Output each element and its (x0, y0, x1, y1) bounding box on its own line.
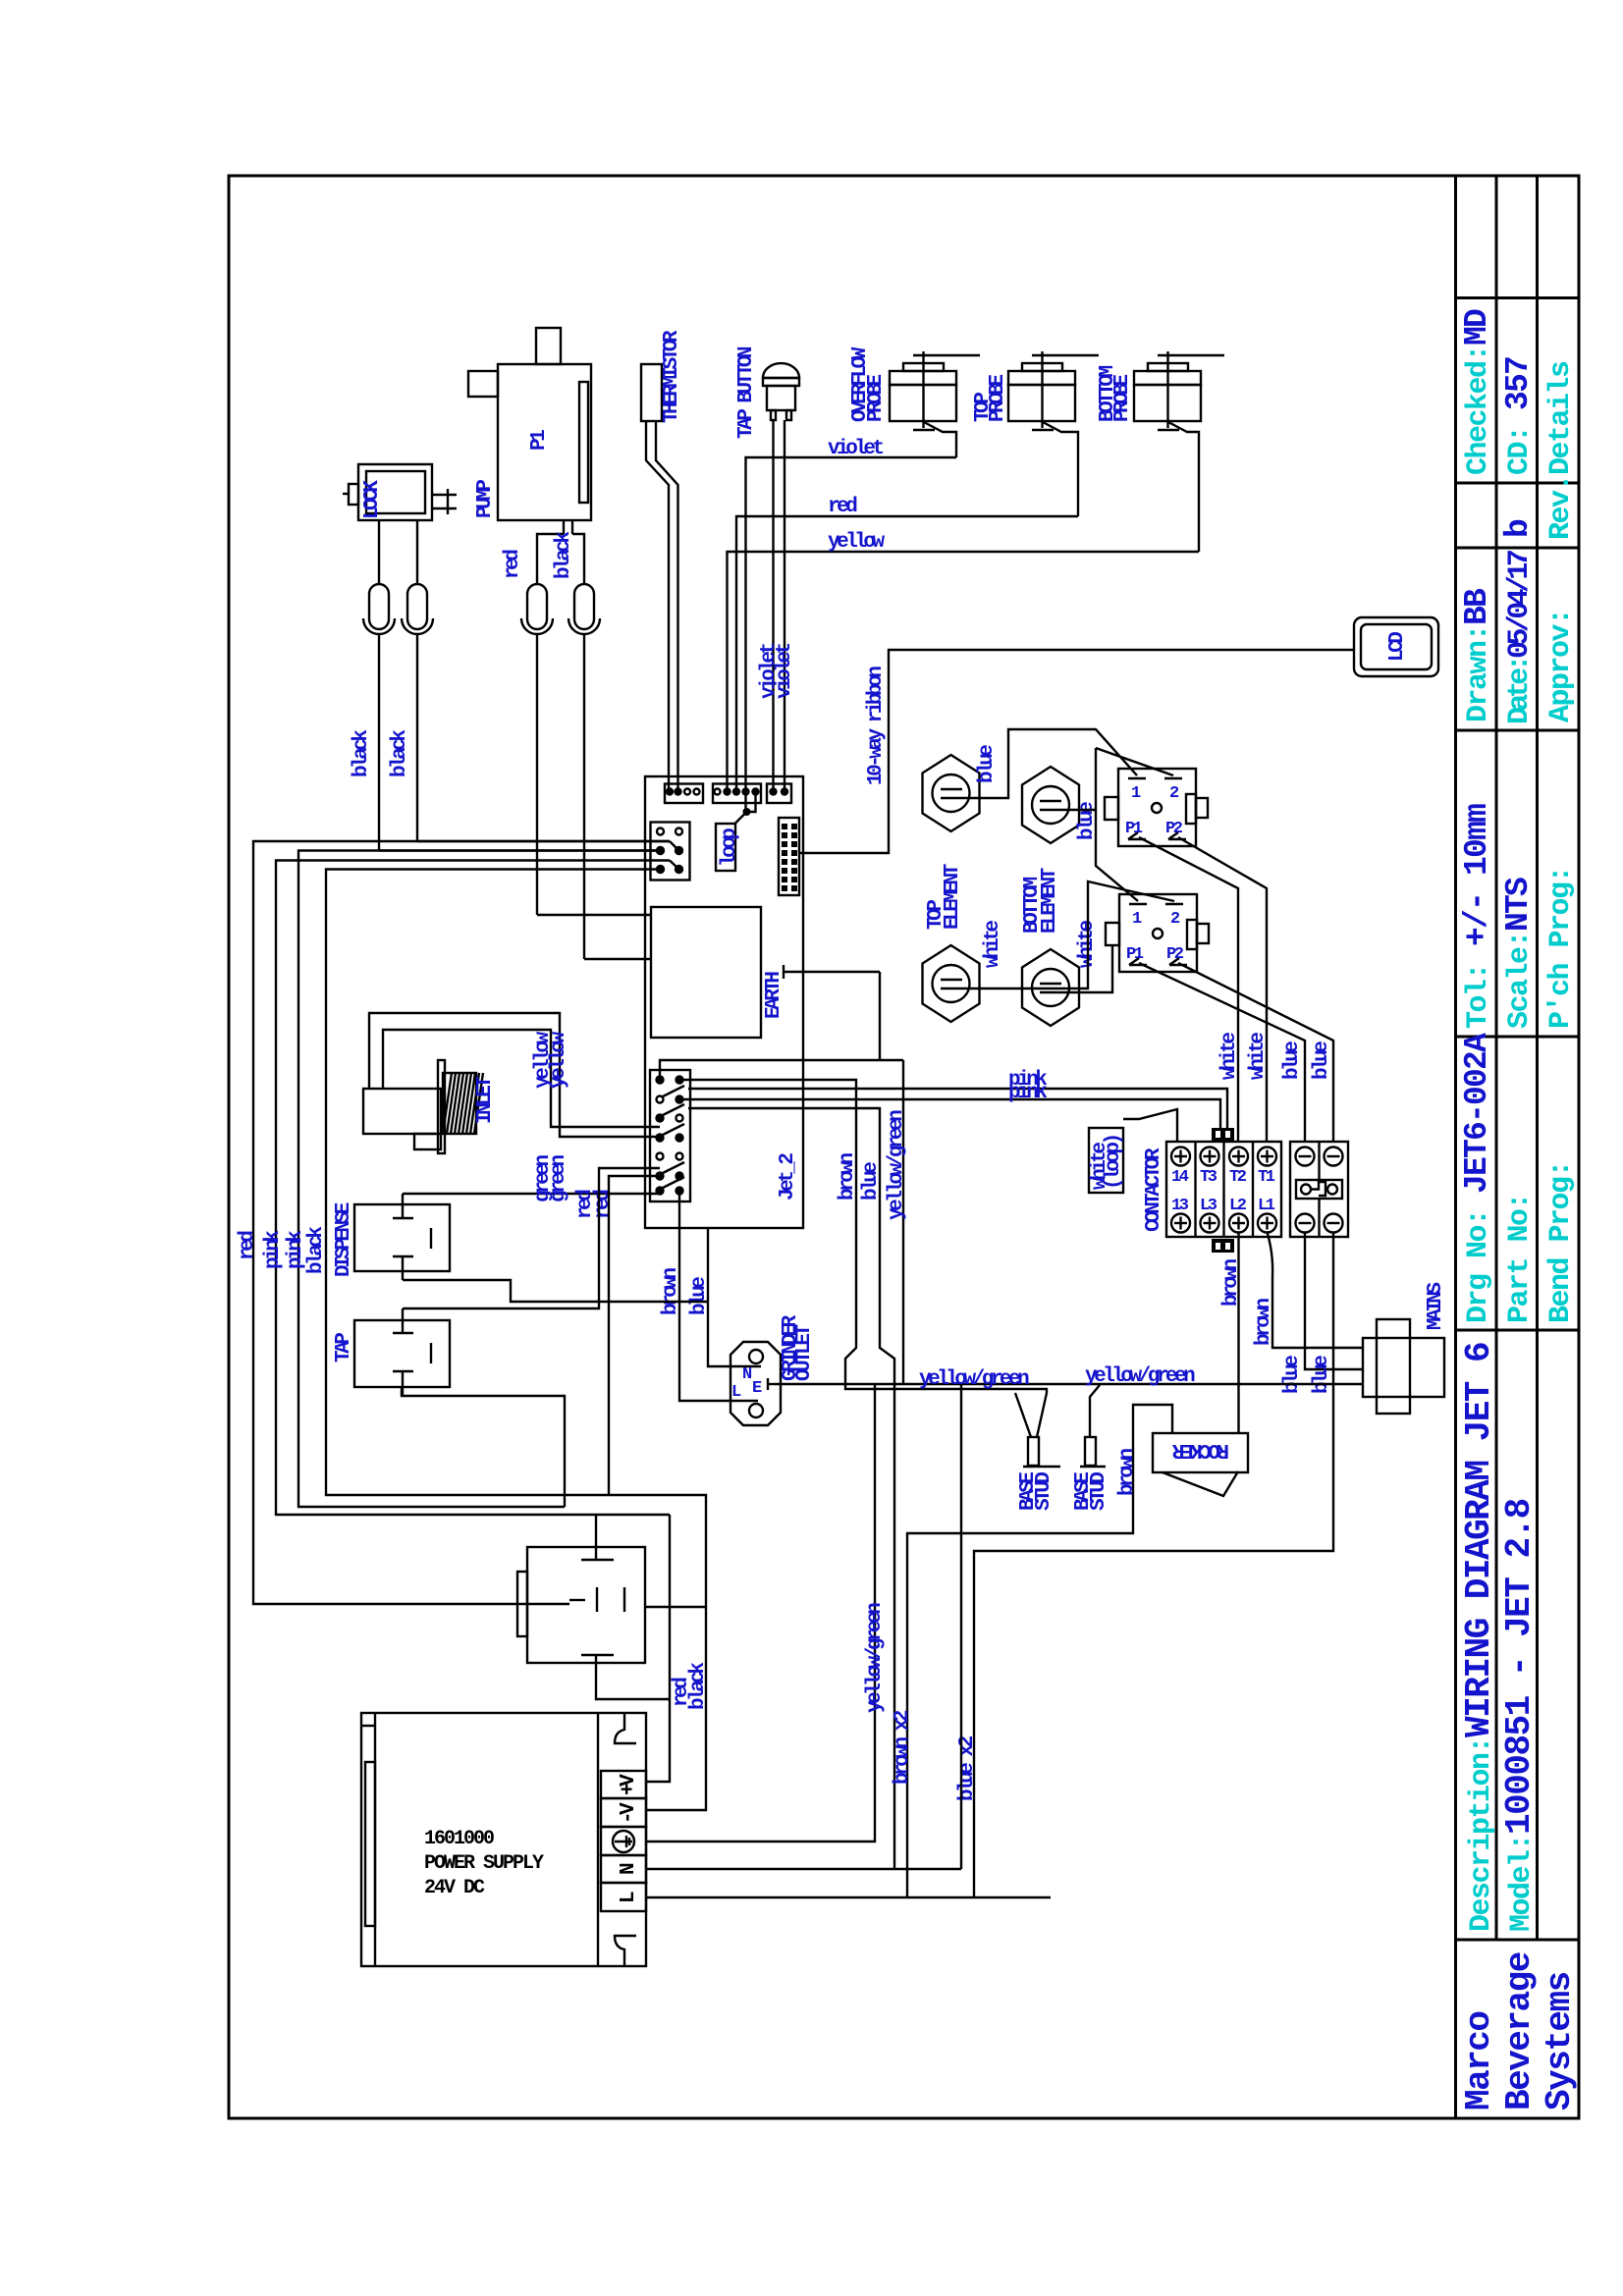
wire brown to grinder L (679, 1194, 730, 1401)
svg-text:P1: P1 (1126, 945, 1144, 964)
svg-text:red: red (828, 496, 857, 518)
LCD (1354, 617, 1438, 676)
wire black to PSU -V (326, 870, 706, 1811)
wire box2 P2 blue to terminal block (1178, 963, 1333, 1142)
svg-text:PROBE: PROBE (1111, 375, 1134, 422)
svg-text:blue: blue (1281, 1041, 1304, 1080)
wire to box1 pin2 (1096, 748, 1173, 775)
svg-text:CD: 357: CD: 357 (1500, 357, 1537, 475)
MAINS plug (1363, 1319, 1444, 1414)
PCB top connector 3 (tap button) (767, 784, 791, 804)
bottom element screw 1 (blue) (1022, 767, 1079, 843)
svg-text:10-way ribbon: 10-way ribbon (865, 667, 888, 785)
svg-text:TAP: TAP (333, 1333, 355, 1362)
solenoid LOCK (343, 464, 457, 520)
PCB lower connector (650, 1070, 690, 1201)
tap button (763, 363, 799, 791)
2-pin black connector above contactor (1212, 1128, 1234, 1142)
svg-text:loop: loop (719, 828, 741, 867)
wire blue2 neutral block down (974, 1232, 1333, 1897)
svg-text:14: 14 (1171, 1168, 1189, 1187)
svg-text:green: green (548, 1155, 570, 1202)
PSU terminal L (601, 1883, 646, 1911)
svg-text:Drg No: JET6-002A: Drg No: JET6-002A (1459, 1033, 1495, 1323)
probe TOP (1008, 351, 1099, 516)
PCB top connector 1 (thermistor) (665, 784, 703, 804)
blade terminal (LOCK right) (402, 520, 433, 841)
top element screw 1 (blue) (923, 755, 980, 831)
svg-text:CONTACTOR: CONTACTOR (1143, 1148, 1165, 1232)
PSU terminal +V (601, 1771, 646, 1798)
probe OVERFLOW (890, 351, 980, 457)
pump P1 (468, 328, 591, 584)
wire hex2 blue riser (1079, 748, 1096, 810)
svg-text:P1: P1 (528, 430, 551, 451)
svg-text:blue: blue (860, 1162, 883, 1201)
svg-text:EARTH: EARTH (763, 972, 785, 1019)
contactor screws bottom (1171, 1214, 1276, 1233)
wire violet (overflow probe) (746, 457, 957, 791)
wire yellow (bottom probe) (728, 552, 1200, 791)
svg-text:yellow/green: yellow/green (864, 1603, 887, 1713)
wire left-r1 up to earth net (660, 1060, 903, 1080)
svg-text:L1: L1 (1258, 1197, 1275, 1215)
svg-text:brown: brown (1116, 1449, 1139, 1496)
svg-text:brown: brown (660, 1268, 682, 1315)
svg-text:blue: blue (688, 1277, 711, 1315)
svg-text:Systems: Systems (1540, 1972, 1580, 2110)
svg-text:TAP BUTTON: TAP BUTTON (735, 347, 758, 439)
svg-text:violet: violet (774, 643, 796, 699)
wire red (far left) (253, 841, 670, 1604)
svg-text:Scale:NTS: Scale:NTS (1500, 878, 1537, 1029)
svg-text:Date:05/04/17: Date:05/04/17 (1503, 551, 1537, 724)
wire brown L1 to mains/rocker (1268, 1232, 1364, 1348)
wire brown riser from r1 (679, 1080, 1015, 1389)
power supply box (361, 1713, 646, 1966)
svg-text:Approv:: Approv: (1544, 609, 1578, 722)
earth stub (784, 965, 880, 979)
drawing frame border (229, 176, 1579, 2118)
wire LOCK-left black to PCB connector (379, 849, 661, 851)
svg-text:white: white (1218, 1033, 1241, 1080)
svg-text:P1: P1 (1125, 820, 1143, 838)
svg-text:Drawn:BB: Drawn:BB (1459, 588, 1495, 722)
svg-text:STUD: STUD (1033, 1472, 1055, 1511)
wire 10-way ribbon to LCD (799, 650, 1354, 853)
svg-text:pink: pink (285, 1231, 307, 1269)
svg-text:Part No:: Part No: (1503, 1194, 1537, 1323)
wire rocker left to relay line (907, 1405, 1172, 1897)
wire box1 P1 white to contactor T2 (1139, 837, 1238, 1142)
wire hex1 blue to box1 pin1 (980, 729, 1138, 798)
ROCKER switch (1153, 1433, 1248, 1472)
svg-text:blue: blue (1311, 1041, 1333, 1080)
svg-text:DISPENSE: DISPENSE (333, 1202, 355, 1277)
wire box2 P1 blue to terminal block (1139, 963, 1305, 1142)
svg-text:Rev.: Rev. (1544, 475, 1578, 540)
svg-text:POWER SUPPLY: POWER SUPPLY (424, 1852, 544, 1875)
svg-text:white: white (1247, 1033, 1270, 1080)
svg-text:b: b (1500, 519, 1537, 538)
wire tap bottom to PSU L (402, 1387, 565, 1507)
wire blue to grinder N (708, 1228, 743, 1366)
svg-text:blue x2: blue x2 (956, 1735, 979, 1801)
DISPENSE switch (354, 1194, 450, 1280)
svg-text:black: black (389, 730, 411, 777)
PCB top connector 2 (713, 784, 761, 804)
svg-text:brown: brown (1220, 1259, 1243, 1307)
svg-text:pink: pink (262, 1231, 285, 1269)
svg-text:red: red (237, 1231, 259, 1260)
svg-text:(loop): (loop) (1103, 1135, 1125, 1190)
PSU terminal N (601, 1855, 646, 1883)
wire inlet yellow 1 (369, 1013, 660, 1137)
upper connector (6-pin with arms) (651, 823, 690, 881)
svg-text:LOCK: LOCK (361, 480, 384, 519)
svg-text:yellow/green: yellow/green (886, 1110, 908, 1220)
title block grid (1456, 176, 1580, 2118)
wire LOCK-right black to PCB connector (417, 840, 670, 842)
TITLEBLOCK (1456, 176, 1581, 2118)
svg-text:black: black (305, 1227, 328, 1274)
EARTH block (651, 907, 761, 1038)
svg-text:MAINS: MAINS (1425, 1283, 1447, 1330)
thermostat box 2 (1106, 894, 1209, 972)
svg-text:ELEMENT: ELEMENT (1039, 868, 1061, 934)
neutral terminal block 2-pole (1290, 1142, 1348, 1237)
svg-text:brown: brown (1253, 1299, 1275, 1346)
svg-text:red: red (592, 1190, 615, 1219)
thermostat box 1 (1105, 769, 1208, 846)
svg-text:24V DC: 24V DC (424, 1877, 485, 1899)
probe BOTTOM (1134, 351, 1224, 552)
wire box1 P2 white to contactor T1 (1178, 837, 1267, 1142)
svg-text:1601000: 1601000 (424, 1828, 494, 1850)
svg-text:T3: T3 (1200, 1168, 1217, 1187)
svg-text:Description:WIRING DIAGRAM JET: Description:WIRING DIAGRAM JET 6 (1459, 1343, 1499, 1932)
svg-text:PROBE: PROBE (865, 375, 888, 422)
wire hex4 white to box2 tab (1079, 945, 1112, 992)
svg-text:Jet_2: Jet_2 (777, 1153, 799, 1201)
svg-text:red: red (502, 550, 524, 579)
svg-text:Model:1000851 - JET 2.8: Model:1000851 - JET 2.8 (1499, 1499, 1540, 1932)
svg-text:Details: Details (1544, 361, 1578, 475)
wire blue neutral block to mains (1305, 1232, 1363, 1369)
wire pump red (537, 914, 651, 916)
svg-text:brown x2: brown x2 (892, 1710, 914, 1785)
svg-text:13: 13 (1171, 1197, 1189, 1215)
base stud 2 (1080, 1385, 1106, 1467)
bottom element screw 2 (white) (1022, 949, 1079, 1026)
wire yellow/green earth from grinder E to mains (775, 1383, 1363, 1385)
wire pink 1 (688, 1089, 1227, 1128)
svg-text:Tol: +/- 10mm: Tol: +/- 10mm (1459, 804, 1495, 1029)
svg-text:brown: brown (837, 1153, 859, 1201)
wire inlet yellow 2 (383, 1030, 660, 1127)
svg-text:P2: P2 (1165, 820, 1183, 838)
wire red pair to r6 (403, 1168, 660, 1308)
svg-text:T1: T1 (1258, 1168, 1275, 1187)
svg-text:Beverage: Beverage (1499, 1952, 1540, 2110)
svg-text:Bend Prog:: Bend Prog: (1544, 1161, 1578, 1323)
wire green 1 (dispense top) (403, 1193, 658, 1195)
wire relay bottom red to PSU +V (596, 1654, 670, 1699)
PSU terminal -V (601, 1798, 646, 1827)
svg-text:P'ch Prog:: P'ch Prog: (1544, 867, 1578, 1029)
svg-text:blue: blue (976, 745, 999, 783)
grinder outlet plate (730, 1342, 781, 1425)
wire pink (far left) (276, 861, 670, 1516)
svg-text:pink: pink (1008, 1082, 1047, 1104)
svg-text:THERMISTOR: THERMISTOR (661, 330, 683, 423)
svg-text:blue: blue (1311, 1356, 1333, 1394)
svg-text:black: black (553, 532, 575, 579)
svg-text:ELEMENT: ELEMENT (942, 864, 964, 930)
top element screw 2 (white) (923, 945, 980, 1022)
svg-text:L2: L2 (1229, 1197, 1247, 1215)
svg-text:PROBE: PROBE (987, 375, 1009, 422)
2-pin black connector below contactor (1212, 1239, 1234, 1253)
INLET valve (363, 1060, 483, 1153)
svg-text:blue: blue (1281, 1356, 1304, 1394)
svg-text:STUD: STUD (1088, 1472, 1110, 1511)
wire pink 2 (679, 1099, 1220, 1128)
svg-text:black: black (687, 1663, 710, 1710)
wire white loop to contactor 14 (1123, 1109, 1177, 1142)
contactor screws top (1171, 1148, 1276, 1166)
loop box (716, 824, 735, 871)
svg-text:yellow: yellow (828, 531, 886, 554)
wire riser down to box2 pin1 (1096, 810, 1138, 901)
wire yellow/green drop (earth vertical) (902, 1060, 904, 1384)
svg-text:PUMP: PUMP (474, 480, 497, 518)
wire blue riser from r3 tip (688, 1108, 894, 1869)
svg-text:yellow/green: yellow/green (1085, 1365, 1195, 1388)
rocker lever (1163, 1471, 1238, 1496)
wire earth drop to PSU (646, 1384, 875, 1842)
svg-text:yellow/green: yellow/green (919, 1368, 1029, 1391)
thermistor (641, 364, 678, 791)
TAP switch (354, 1308, 450, 1396)
svg-text:LCD: LCD (1386, 632, 1409, 662)
svg-text:T2: T2 (1229, 1168, 1247, 1187)
svg-text:black: black (351, 730, 373, 777)
PSU terminal earth (601, 1827, 646, 1855)
base stud 1 (1015, 1393, 1060, 1467)
blade terminal (pump black) (568, 584, 600, 959)
wire green 2 (dispense bottom) (403, 1280, 708, 1302)
svg-text:OUTLET: OUTLET (793, 1324, 816, 1381)
wire red (top probe) (736, 516, 1078, 791)
svg-text:yellow: yellow (548, 1031, 570, 1089)
svg-text:ROCKER: ROCKER (1171, 1438, 1229, 1461)
wire loop pigtail (744, 792, 746, 813)
svg-text:INLET: INLET (474, 1077, 497, 1124)
wire hex3 white to box2 pin2 (980, 881, 1175, 988)
svg-text:L3: L3 (1200, 1197, 1217, 1215)
white loop label box (1089, 1128, 1123, 1193)
svg-text:Marco: Marco (1459, 2011, 1499, 2110)
blade terminal (LOCK left) (363, 520, 395, 851)
wire brown L2 to rocker (1237, 1233, 1239, 1433)
RELAY (517, 1547, 645, 1663)
Jet_2 PCB outline (645, 776, 803, 1228)
contactor body (1166, 1142, 1281, 1237)
svg-text:white: white (982, 921, 1004, 968)
wire pump black (584, 958, 651, 960)
svg-text:P2: P2 (1166, 945, 1184, 964)
wire relay top to rocker run (595, 1515, 597, 1561)
wire yellow/green left run to stud1 (1015, 1389, 1047, 1393)
wire pink2 (far left) (298, 851, 661, 1508)
svg-text:Checked:MD: Checked:MD (1459, 309, 1495, 475)
svg-text:violet: violet (828, 438, 884, 460)
blade terminal (pump red) (521, 584, 553, 915)
16-pin ribbon header (779, 818, 799, 895)
